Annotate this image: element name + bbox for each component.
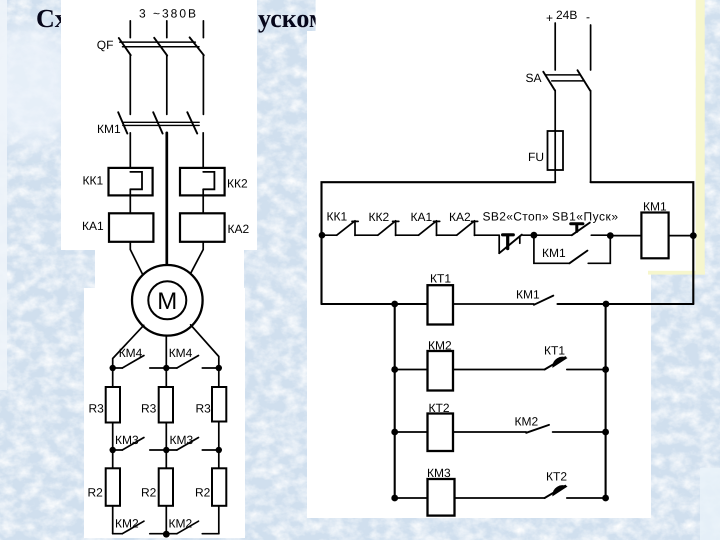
wire SA to fuse (554, 90, 556, 182)
contact KM3-2 (166, 438, 219, 451)
svg-text:КМ1: КМ1 (97, 122, 121, 136)
wire b2 R2 to row3 (165, 506, 167, 534)
svg-text:R2: R2 (141, 486, 157, 500)
svg-text:КМ3: КМ3 (170, 433, 194, 447)
wire coil KM1 to right bus (669, 235, 694, 237)
node rotor row3 center (163, 531, 170, 538)
svg-text:R3: R3 (196, 402, 212, 416)
button SB1 (NO pushbutton) (534, 223, 610, 236)
node right rail top (603, 301, 610, 308)
node main rung left (319, 232, 326, 239)
wire b3 R3 to row2 (218, 422, 220, 451)
svg-text:КМ2: КМ2 (169, 517, 193, 531)
svg-text:КК1: КК1 (327, 210, 348, 224)
svg-text:R2: R2 (195, 486, 211, 500)
contact KM2-2 (166, 521, 219, 534)
node rung3 left (391, 429, 398, 436)
node rung4 left (391, 495, 398, 502)
contactor KM1 pole 3 blade (187, 112, 197, 133)
resistor R2-2 (159, 468, 173, 506)
wire b1 row2 to R2 (112, 450, 114, 468)
contactor KM1 pole 2 blade (153, 112, 162, 133)
wire b2 row2 to R2 (165, 450, 167, 468)
svg-text:КА2: КА2 (449, 210, 471, 224)
contact KM4-1 (113, 356, 167, 369)
fuse FU body (548, 131, 564, 170)
resistor R2-1 (106, 468, 120, 506)
contact KK2 (NC) (355, 221, 399, 236)
breaker QF pole 3 blade (190, 37, 204, 55)
contact KM4-2 (166, 356, 219, 369)
switch SA pole 1 blade (543, 72, 555, 91)
node left rail top (391, 301, 398, 308)
contact KT2 time-delay rung4 (455, 486, 606, 498)
wire minus down (590, 91, 592, 183)
svg-text:КМ1: КМ1 (516, 288, 540, 302)
svg-text:R2: R2 (88, 486, 104, 500)
coil KM1 (641, 213, 668, 259)
wire rung2 lead (395, 369, 428, 371)
resistor R3-3 (212, 387, 226, 422)
node after SB1 (607, 232, 614, 239)
node rung2 right (602, 366, 609, 373)
wire L1 KM1 to KK1 (129, 133, 131, 172)
wire b3 row1 to R3 (218, 368, 220, 387)
motor M outer circle (132, 265, 203, 336)
wire b1 R2 to row3 (112, 506, 114, 534)
bottom-right light patch (700, 468, 720, 540)
wire KA2 to motor (190, 242, 203, 274)
wire phase L2 top stub (166, 21, 168, 38)
contact KK1 (NC) (322, 221, 359, 236)
node rotor row2 b1 (110, 447, 116, 453)
resistor R3-1 (106, 387, 120, 423)
button SB2 (NC pushbutton) (475, 235, 534, 254)
wire b1 row1 to R3 (112, 368, 114, 387)
svg-text:КК2: КК2 (227, 177, 248, 191)
svg-text:КМ2: КМ2 (115, 517, 139, 531)
thermal relay KK1 heater bump (130, 172, 142, 189)
yellow border bottom (648, 271, 705, 275)
wire KA1 to motor (130, 242, 142, 274)
resistor R2-3 (212, 468, 226, 506)
light patch top-left (0, 25, 75, 145)
contactor KM1 linkage bar 2 (123, 124, 199, 126)
wire L1 QF to KM1 (129, 55, 131, 114)
wire minus bus (591, 182, 694, 304)
wire L3 KK2 to KA2 (202, 189, 204, 213)
wire b2 row1 to R3 (165, 368, 167, 387)
thermal relay KK2 box (180, 168, 225, 196)
svg-text:КМ4: КМ4 (169, 346, 193, 360)
svg-text:КТ1: КТ1 (544, 344, 565, 358)
svg-text:3 ~380В: 3 ~380В (139, 7, 196, 21)
wire rung4 lead (395, 497, 428, 499)
wire b2 R3 to row2 (165, 423, 167, 451)
left edge light strip (0, 0, 7, 390)
svg-text:КТ2: КТ2 (546, 470, 567, 484)
node right bus main rung (690, 232, 697, 239)
svg-text:КА1: КА1 (411, 210, 433, 224)
wire right rail (605, 304, 607, 498)
wire b3 row2 to R2 (218, 450, 220, 468)
svg-text:SB1«Пуск»: SB1«Пуск» (552, 210, 618, 224)
coil KM2 (428, 351, 454, 391)
contact KA2 (NC) (437, 221, 478, 236)
svg-text:-: - (586, 10, 590, 24)
thermal relay KK1 box (109, 168, 153, 196)
wire L1 KK1 to KA1 (129, 189, 131, 213)
coil KT1 (428, 285, 454, 324)
wire motor to rotor branch 1 (113, 325, 144, 368)
wire 24V plus drop (554, 23, 556, 70)
white panel motor (95, 250, 244, 333)
svg-text:M: M (157, 288, 177, 315)
node rotor row1 b1 (110, 365, 116, 371)
white panel power circuit (61, 0, 257, 250)
white panel rotor resistors (84, 288, 245, 538)
breaker QF linkage bar 2 (123, 46, 200, 48)
wire phase L1 top stub (129, 21, 131, 38)
wire b1 R3 to row2 (112, 423, 114, 451)
svg-text:КМ3: КМ3 (115, 433, 139, 447)
thermal relay KK2 heater bump (203, 172, 214, 189)
white panel control top (316, 0, 696, 271)
svg-text:SB2«Стоп»: SB2«Стоп» (483, 210, 549, 224)
yellow border right (696, 0, 705, 275)
contactor KM1 pole 1 blade (118, 112, 127, 133)
wire to coil KM1 (610, 235, 641, 237)
svg-text:КМ2: КМ2 (515, 415, 539, 429)
wire b3 R2 to row3 (218, 506, 220, 534)
motor M inner circle (148, 281, 186, 319)
wire L3 QF to KM1 (202, 55, 204, 114)
contact KM1 seal-in branch (534, 235, 610, 263)
svg-text:КК2: КК2 (369, 210, 390, 224)
node rung2 left (391, 366, 398, 373)
wire L2 KM1 down to motor (165, 133, 168, 266)
coil KT2 (428, 414, 454, 452)
svg-text:24В: 24В (556, 8, 577, 22)
wire motor to rotor branch 2 (165, 336, 167, 368)
wire bottom bus left segment (322, 303, 428, 305)
contact KM3-1 (113, 438, 167, 451)
wire motor to rotor branch 3 (191, 325, 219, 368)
svg-text:КМ1: КМ1 (542, 246, 566, 260)
svg-text:КТ1: КТ1 (430, 272, 451, 286)
wire left rail (394, 304, 396, 498)
wire L3 KM1 to KK2 (202, 133, 204, 172)
breaker QF pole 2 blade (154, 38, 167, 56)
node rotor row2 b3 (216, 447, 222, 453)
svg-text:FU: FU (528, 150, 544, 164)
switch SA linkage bar 1 (546, 74, 580, 76)
svg-text:КА1: КА1 (82, 219, 104, 233)
svg-text:КА2: КА2 (228, 222, 250, 236)
switch SA pole 2 blade (578, 70, 591, 90)
node rung4 right (602, 495, 609, 502)
node rung3 right (602, 429, 609, 436)
node rotor row1 b3 (216, 365, 222, 371)
resistor R3-2 (159, 387, 173, 423)
svg-text:R3: R3 (141, 402, 157, 416)
breaker QF linkage bar 1 (120, 41, 196, 43)
contactor KM1 linkage bar 1 (123, 121, 199, 123)
coil KM3 (428, 479, 455, 516)
breaker QF pole 1 blade (119, 38, 131, 55)
svg-text:+: + (546, 11, 553, 25)
svg-text:SA: SA (526, 71, 542, 85)
contact KA1 (NC) (396, 221, 440, 236)
contact KM2 (NO) rung3 (453, 425, 606, 433)
wire rung3 lead (395, 431, 428, 433)
node rotor row2 b2 (163, 447, 169, 453)
white panel control lower (307, 31, 651, 518)
wire L2 QF to KM1 (166, 56, 168, 115)
current relay KA1 box (109, 213, 153, 242)
contact KM2-1 (113, 521, 167, 534)
node rotor row1 b2 (163, 365, 169, 371)
current relay KA2 box (180, 213, 225, 242)
wire plus bus (322, 182, 556, 304)
wire phase L3 top stub (202, 21, 204, 38)
svg-text:QF: QF (97, 38, 114, 52)
wire 24V minus drop (590, 25, 592, 70)
switch SA linkage bar 2 (552, 80, 584, 82)
svg-text:R3: R3 (89, 402, 105, 416)
contact KM1 on bottom bus (NO) (453, 296, 693, 305)
contact KT1 time-delay (NO delayed closing) (453, 357, 606, 369)
svg-text:КК1: КК1 (83, 174, 104, 188)
node after SB2 (531, 232, 538, 239)
